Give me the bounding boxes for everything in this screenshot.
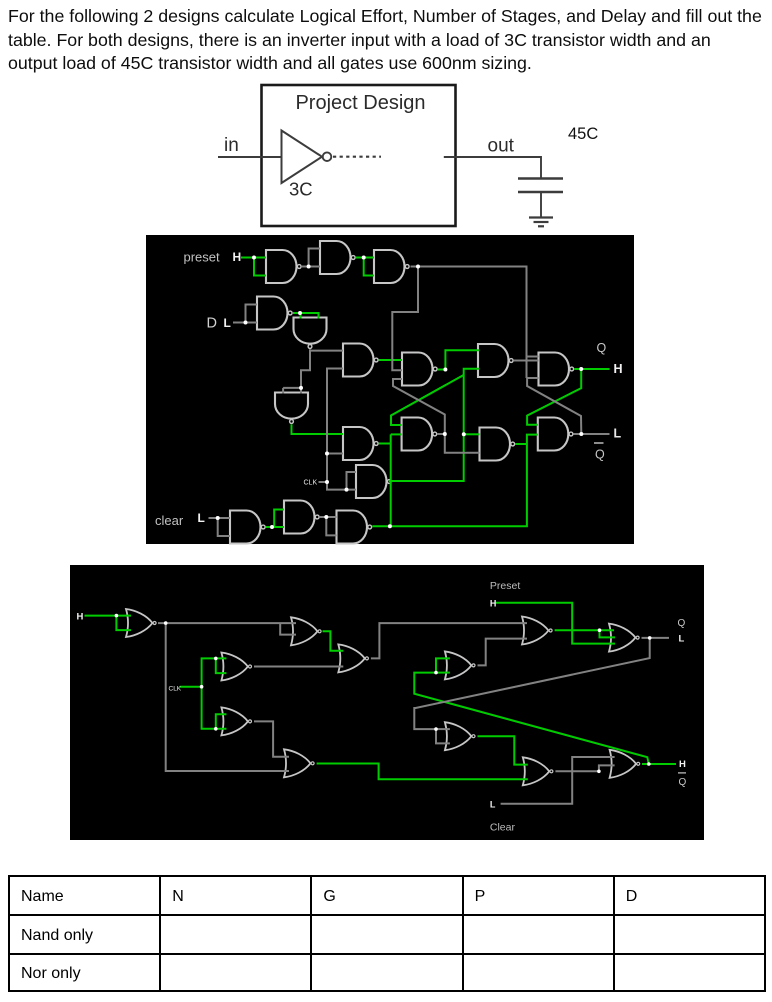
- nand gate P1 (preset input): [266, 250, 301, 283]
- wire K1 out to K2: [266, 526, 284, 528]
- junction H input: [115, 614, 119, 618]
- nor gate M8: [284, 749, 314, 777]
- svg-text:H: H: [490, 598, 497, 608]
- svg-text:clear: clear: [155, 513, 184, 528]
- wire M6 input tie: [436, 658, 450, 672]
- svg-text:L: L: [614, 427, 622, 441]
- wire P1 out to P2: [302, 266, 320, 268]
- junction U6 in: [299, 386, 303, 390]
- wire E out: [379, 443, 391, 445]
- junction CLK p2: [200, 685, 204, 689]
- wire F out to G: [437, 434, 479, 453]
- nor gate M5: [338, 644, 368, 672]
- wire CLK to A: [319, 369, 344, 483]
- wire U6 input tie: [283, 387, 301, 389]
- junction B out: [443, 368, 447, 372]
- junction G input: [462, 432, 466, 436]
- wire U6 input stub a: [282, 388, 284, 394]
- nor gate M4: [221, 707, 251, 735]
- junction CLK E: [325, 452, 329, 456]
- wire U4 out to U5: [293, 313, 319, 319]
- wire M7 out to M11: [478, 736, 528, 764]
- nor gate M2: [291, 617, 321, 645]
- wire P3 input tie: [364, 258, 374, 276]
- wire D gate upper input stub: [527, 356, 539, 358]
- junction U4 out: [298, 311, 302, 315]
- nor gate M7: [445, 722, 475, 750]
- ground: [529, 216, 553, 218]
- svg-text:Project Design: Project Design: [295, 92, 425, 114]
- wire input in: [218, 156, 282, 158]
- nor gate M3 (clk inverter): [221, 653, 251, 681]
- wire clear L to K1: [209, 517, 231, 519]
- wire preset H to P1: [241, 257, 266, 259]
- junction H gate out: [579, 432, 583, 436]
- junction M12 out: [647, 762, 651, 766]
- junction CLK buffer: [345, 488, 349, 492]
- svg-text:L: L: [198, 511, 205, 525]
- wire P3 out to D gate bar: [411, 267, 527, 379]
- wire output out: [444, 157, 541, 179]
- wire M12 out to H flag: [642, 763, 676, 765]
- wire M8 out to M11 lower input: [317, 764, 528, 780]
- wire M5 out to M9: [371, 623, 527, 658]
- nor gate M1 (H input): [126, 609, 156, 637]
- junction M7 tie: [434, 727, 438, 731]
- wire Preset H to M10: [496, 603, 615, 644]
- wire CLK buffer input tie: [347, 472, 357, 490]
- svg-text:in: in: [224, 135, 239, 156]
- junction K3 out: [388, 524, 392, 528]
- wire cross H out to D lower input: [527, 378, 581, 434]
- wire capacitor to ground: [540, 192, 542, 218]
- wire M1 out to M2: [158, 622, 296, 624]
- svg-text:out: out: [488, 135, 515, 156]
- wire D gate lower input stub: [527, 377, 539, 379]
- junction M3 tie: [214, 657, 218, 661]
- junction preset: [252, 256, 256, 260]
- wire CLK to M3: [202, 658, 227, 686]
- nand gate CLK buffer: [356, 465, 391, 498]
- junction M4 tie: [214, 727, 218, 731]
- wire H input to M1: [85, 615, 132, 617]
- wire clear net vertical: [390, 434, 392, 526]
- wire to F lower input: [391, 433, 402, 435]
- wire CLK to M4: [202, 687, 227, 729]
- wire CLK buffer out vertical to C lower input: [389, 369, 480, 481]
- nand gate K2: [284, 501, 319, 534]
- wire M10 out to L flag: [642, 637, 670, 639]
- svg-text:45C: 45C: [568, 125, 598, 143]
- svg-text:preset: preset: [184, 249, 221, 264]
- svg-text:Q: Q: [679, 777, 687, 788]
- nand gate B: [402, 353, 437, 386]
- wire K2 input tie: [274, 510, 284, 528]
- wire B out to C upper input: [445, 350, 479, 369]
- wire M7 input stub: [436, 728, 450, 730]
- junction K2 out: [324, 515, 328, 519]
- wire M3 input tie: [216, 658, 227, 673]
- junction M6 tie: [434, 671, 438, 675]
- wire U5 out to A: [310, 349, 343, 350]
- nor gate M9: [522, 617, 552, 645]
- nand gate A: [343, 344, 378, 377]
- nor gate M11: [523, 757, 553, 785]
- nand gate U4 (D input): [257, 297, 292, 330]
- svg-text:L: L: [224, 316, 231, 330]
- wire H gate out to L flag: [574, 433, 610, 435]
- svg-text:L: L: [679, 634, 685, 645]
- wire M6 input stub: [436, 672, 450, 674]
- wire M11 out: [555, 770, 599, 772]
- nand gate F: [402, 418, 437, 451]
- svg-text:3C: 3C: [289, 179, 313, 200]
- junction D out: [579, 367, 583, 371]
- svg-text:H: H: [614, 362, 623, 376]
- wire K1 input tie: [218, 518, 230, 536]
- wire K3 out to H input: [372, 435, 538, 527]
- wire U5 out down: [301, 351, 310, 388]
- wire CLK to E: [327, 453, 343, 455]
- wire M3 out to M5: [254, 666, 343, 668]
- nand gate U5 (vertical): [294, 318, 327, 349]
- wire U6 input stub b: [300, 388, 302, 394]
- junction F out: [443, 432, 447, 436]
- wire Q feedback to M7: [414, 638, 649, 729]
- wire M11 to M12 jog: [599, 765, 615, 771]
- wire CLK: [180, 686, 202, 688]
- wire cross to F upper input: [391, 375, 464, 425]
- svg-text:CLK: CLK: [304, 480, 318, 487]
- wire P1 input tie: [254, 258, 266, 276]
- wire M10 input jog: [600, 630, 616, 637]
- wire M4 input tie: [216, 714, 227, 729]
- svg-text:CLK: CLK: [169, 686, 182, 693]
- wire K3 input tie: [326, 517, 336, 535]
- inverter U1: [282, 131, 323, 184]
- junction M1 out: [164, 621, 168, 625]
- nor gate M12 (Qbar output): [610, 750, 640, 778]
- svg-text:Q: Q: [597, 341, 607, 355]
- Project Design box: [262, 85, 456, 226]
- svg-text:H: H: [77, 612, 84, 623]
- nand gate K1 (clear input): [230, 511, 265, 544]
- wire M1 out to M8 lower input: [166, 623, 289, 771]
- wire U5 input tie: [300, 313, 302, 319]
- wire P2 input tie: [309, 249, 320, 267]
- nor gate M10 (Q output): [609, 624, 639, 652]
- svg-text:H: H: [679, 759, 686, 770]
- nand gate H (Qbar output): [538, 418, 573, 451]
- svg-text:L: L: [490, 799, 496, 809]
- wire to G upper input: [464, 433, 480, 435]
- junction D input: [244, 321, 248, 325]
- wire P2 out to P3: [356, 257, 374, 259]
- wire CLK to buffer: [327, 482, 356, 490]
- wire cross D out to H gate upper input: [527, 369, 581, 425]
- wire P3 out to B gate: [392, 267, 418, 371]
- wire A out to B: [379, 359, 402, 361]
- junction M9 out: [598, 628, 602, 632]
- svg-text:Clear: Clear: [490, 822, 516, 834]
- wire Qbar feedback to M6: [414, 673, 649, 764]
- wire K2 out to K3: [320, 516, 337, 518]
- wire D out to H flag: [574, 368, 609, 370]
- wire M4 out to M8: [254, 721, 289, 756]
- nand gate P3: [374, 250, 409, 283]
- wire M2 out to M5: [323, 631, 344, 650]
- junction P2 out: [362, 256, 366, 260]
- nand gate D (Q output): [539, 353, 574, 386]
- nand gate K3: [337, 511, 372, 544]
- wire M2 input tie: [280, 623, 296, 635]
- nand gate U6 (vertical): [275, 393, 308, 424]
- wire M9 out to M10: [555, 629, 614, 631]
- wire U6 out to E: [292, 424, 344, 434]
- nand gate P2: [320, 241, 355, 274]
- junction P1 out: [307, 265, 311, 269]
- junction CLK: [325, 480, 329, 484]
- wire U4 input tie: [246, 305, 258, 323]
- junction K1 out: [270, 525, 274, 529]
- junction clear: [216, 516, 220, 520]
- svg-text:D: D: [207, 316, 217, 332]
- nand gate G: [480, 428, 515, 461]
- junction P3 out: [416, 265, 420, 269]
- wire C out to D gate: [514, 360, 539, 362]
- capacitor C1 45C: [518, 177, 563, 180]
- wire M7 input tie: [436, 729, 450, 743]
- svg-text:H: H: [233, 250, 242, 264]
- wire G out: [515, 443, 527, 445]
- panel NOR-only design background: [70, 565, 704, 840]
- nand gate E: [343, 427, 378, 460]
- svg-text:Q: Q: [595, 448, 605, 462]
- nand gate C: [478, 344, 513, 377]
- wire Clear L to M12: [501, 757, 615, 804]
- wire D input L: [233, 322, 257, 324]
- wire M6 out to M9 lower input: [478, 639, 528, 666]
- wire cross F out to B lower input: [393, 379, 445, 434]
- junction M11 out: [597, 770, 601, 774]
- dotted wire: [333, 156, 381, 158]
- nor gate M6: [445, 651, 475, 679]
- wire M1 input tie: [116, 616, 131, 631]
- panel NAND-only design background: [146, 235, 634, 544]
- junction M10 out: [648, 636, 652, 640]
- svg-text:Q: Q: [678, 618, 686, 629]
- wire B out stub: [438, 369, 446, 371]
- svg-text:Preset: Preset: [490, 580, 520, 592]
